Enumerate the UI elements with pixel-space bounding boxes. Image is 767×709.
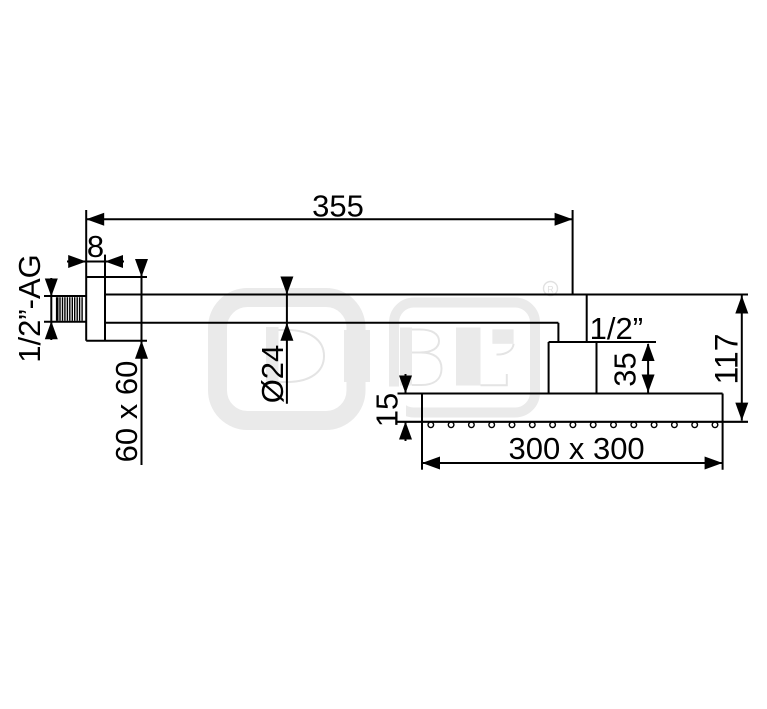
svg-text:8: 8 (87, 229, 104, 264)
svg-text:R: R (547, 285, 554, 295)
svg-text:1/2”-AG: 1/2”-AG (12, 254, 47, 363)
svg-text:355: 355 (312, 189, 364, 224)
svg-text:60 x 60: 60 x 60 (109, 361, 144, 463)
svg-text:1/2”: 1/2” (590, 311, 643, 346)
svg-text:15: 15 (370, 393, 405, 427)
svg-text:117: 117 (709, 333, 745, 384)
svg-text:Ø24: Ø24 (255, 345, 290, 404)
svg-text:35: 35 (608, 352, 643, 386)
svg-text:300 x 300: 300 x 300 (509, 431, 645, 466)
